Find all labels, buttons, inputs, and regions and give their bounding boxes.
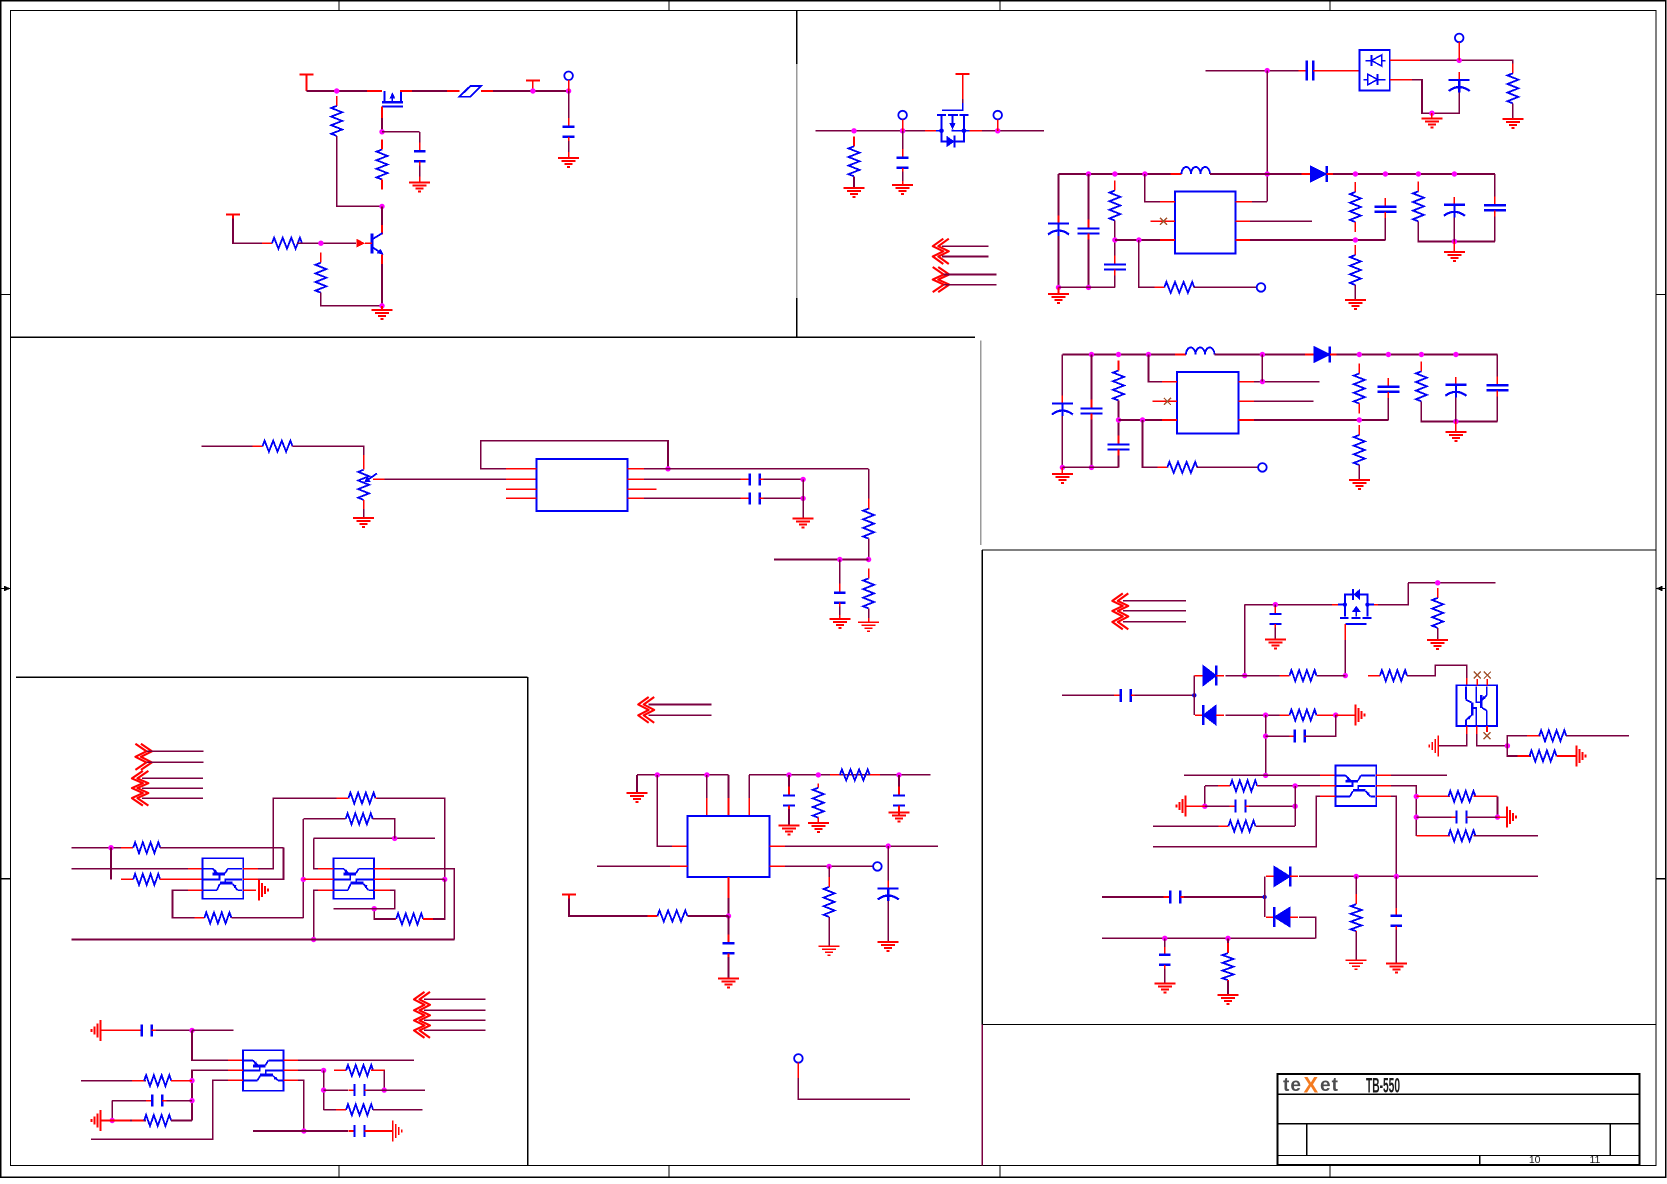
wire C23 to ground <box>1274 628 1276 640</box>
block border: right block top edge <box>982 549 1656 551</box>
wire Q2 emitter down <box>381 255 383 306</box>
wire bottom row right block <box>1102 937 1316 939</box>
resistor R33 <box>336 1104 383 1115</box>
resistor R24 <box>121 842 172 853</box>
pin stub U4 left mid <box>1153 400 1177 402</box>
resistor R10 <box>1109 181 1120 231</box>
wire opto B pin3 route <box>314 890 318 939</box>
ground sideways (opto A) <box>259 880 268 901</box>
capacitor C6 <box>897 149 909 177</box>
wire bus4 right segment <box>749 774 930 776</box>
wire C30 top <box>1164 938 1166 951</box>
op-amp/regulator IC U2 <box>537 459 628 511</box>
junction bus1/R12 <box>1353 171 1358 176</box>
wire R11 to pin P5 <box>1194 286 1257 288</box>
power flag VOUT <box>526 81 540 92</box>
wire opto A top-left pin <box>72 868 203 870</box>
wire opto B top-left pin <box>318 868 334 870</box>
wire bus1 segment B <box>1210 173 1304 175</box>
wire junction to C22 <box>304 1130 348 1132</box>
wire U5 out pin2 <box>770 865 786 867</box>
wire R45 to ground <box>1227 981 1229 995</box>
junction opto B mid-left <box>301 877 306 882</box>
pin stub U3 right mid <box>1235 220 1250 222</box>
wire opto C mid-left pin <box>228 1069 243 1071</box>
resistor R14 <box>1413 181 1424 231</box>
wire row7 left <box>1153 825 1228 827</box>
wire QD bottom pin2 <box>1476 726 1478 734</box>
pin stub QD top c <box>1486 679 1488 685</box>
junction bus1/C10 <box>1383 171 1388 176</box>
wire fb divider down <box>1139 240 1155 287</box>
junction bus3/U5 pin1 rail <box>655 772 660 777</box>
ground (C23) <box>1265 640 1286 649</box>
wire R32 drop <box>383 1070 385 1090</box>
wire C20 to vertical <box>166 1100 192 1102</box>
ground (DA1) <box>1421 113 1442 127</box>
junction DA1 ground node <box>1429 111 1434 116</box>
diode D3 <box>1195 666 1224 686</box>
capacitor C24 <box>1114 689 1138 702</box>
svg-text:et: et <box>1320 1075 1339 1096</box>
sheet centre arrow right <box>1656 586 1666 592</box>
wire R5 to trimmer top <box>293 446 364 462</box>
junction row4 QE <box>1263 773 1268 778</box>
capacitor C16 <box>783 787 795 815</box>
wire output node down to C2 <box>568 91 570 123</box>
junction bus2/C12 <box>1089 352 1094 357</box>
svg-text:11: 11 <box>1589 1154 1600 1166</box>
junction divider node <box>866 557 871 562</box>
no-connect cross X2 <box>1164 398 1171 405</box>
wire C21 stub right <box>384 1089 425 1091</box>
wire QE pin5 route <box>1391 786 1416 836</box>
wire R30 to vertical <box>171 1080 192 1082</box>
svg-text:X: X <box>1304 1073 1319 1098</box>
wire U4 right mid stub <box>1254 400 1314 402</box>
wire left rail1 bottom <box>1058 236 1060 287</box>
title block column divider b <box>1609 1124 1611 1156</box>
wire R37 long right <box>1566 735 1629 737</box>
wire opto A mid-right pin <box>243 878 258 880</box>
ground (R8) <box>844 188 865 197</box>
ground (C18) <box>718 979 739 988</box>
dual transistor QE <box>1336 766 1377 807</box>
junction R32 left <box>321 1068 326 1073</box>
resistor R43 <box>1438 830 1485 841</box>
wire left rail2 top <box>1061 355 1063 400</box>
pin stub QD bottom c <box>1486 726 1488 732</box>
wire vertical R40 node <box>1294 786 1296 826</box>
border zone ticks top <box>339 1 1330 11</box>
title block row divider 3 <box>1278 1155 1640 1157</box>
power flag (U5 bypass) <box>562 894 576 898</box>
wire C4 to junction <box>763 497 803 499</box>
polarized capacitor PC2 <box>1048 216 1069 245</box>
resistor R26 <box>194 912 241 923</box>
wire C29 to ground <box>1395 930 1397 964</box>
junction C3 right <box>800 477 805 482</box>
junction C21 right <box>382 1087 387 1092</box>
offpage connector group D <box>135 744 152 770</box>
wire opto C pin4 long stub <box>298 1059 414 1061</box>
wire R14 to out bottom rail <box>1418 221 1495 241</box>
junction R35/R36 node <box>1343 673 1348 678</box>
junction gate node <box>379 129 384 134</box>
wire C21 row left <box>324 1089 349 1091</box>
wire U4 sw stub <box>1254 381 1320 383</box>
junction main rail / R1 <box>334 88 339 93</box>
wire QD bottom pin1 <box>1466 726 1468 734</box>
wire U3 vin pin <box>1145 174 1175 202</box>
capacitor C28 <box>1163 891 1187 904</box>
junction C26 right <box>1292 804 1297 809</box>
wire R28 right drop <box>373 819 395 839</box>
wire C11 bottom <box>1494 216 1496 241</box>
wire right chain down <box>868 469 870 510</box>
junction R8 top <box>851 128 856 133</box>
wire C1 stem <box>419 132 421 147</box>
junction U5 out1/PC6 <box>886 843 891 848</box>
wire rowA to R42 <box>1416 795 1450 797</box>
resistor R19 <box>1416 361 1427 411</box>
junction C21 left <box>321 1087 326 1092</box>
wire R10 to C9 <box>1114 221 1116 259</box>
pin stub U4 right mid <box>1238 400 1254 402</box>
ground (R7) <box>858 618 879 631</box>
wire C6 stem <box>902 131 904 154</box>
resistor R17 <box>1354 364 1365 414</box>
resistor R18 <box>1354 425 1365 475</box>
wire Q1 gate drop <box>381 106 383 131</box>
junction U3 gnd / fb divider <box>1136 237 1141 242</box>
pin stub U3 left mid <box>1151 220 1175 222</box>
dual transistor opto QC <box>243 1050 284 1091</box>
no-connect cross X4 <box>1484 672 1491 679</box>
ground (R45) <box>1218 995 1239 1004</box>
capacitor C14 <box>1377 378 1399 401</box>
junction R30 node <box>189 1078 194 1083</box>
polarized capacitor PC4 <box>1052 396 1073 425</box>
capacitor C10 <box>1374 198 1396 221</box>
wire C17 stem <box>898 775 900 792</box>
sheet centre arrow left <box>1 586 11 592</box>
title block row divider 1 <box>1278 1093 1640 1095</box>
wire opto A top-right pin <box>243 868 258 870</box>
junction fb2/output divider <box>1357 417 1362 422</box>
border zone ticks right edge <box>1656 295 1666 879</box>
ground (C17) <box>889 809 910 821</box>
wire QE pin3 route <box>1153 796 1320 846</box>
junction diode pair D3/D4 <box>1192 693 1196 697</box>
junction out bottom rail2 <box>1453 419 1458 424</box>
wire R1 bottom to base rail <box>337 136 382 207</box>
offpage line G1 <box>1123 600 1186 602</box>
wire C5 to ground <box>839 606 841 619</box>
wire U5 out1 right <box>785 845 938 847</box>
wire Q4 source to rail <box>1378 583 1408 605</box>
junction row6 left <box>1202 804 1207 809</box>
wire R9 to ground <box>1512 103 1514 119</box>
wire sw node to bus2 <box>1261 355 1263 382</box>
wire trimmer wiper to IC1 <box>373 478 385 480</box>
offpage connector group F <box>414 992 430 1038</box>
wire U3 sw to VIN rail <box>1252 201 1267 203</box>
wire R39 to ground <box>1317 714 1336 716</box>
wire C28 row left <box>1102 896 1167 898</box>
wire R6 to divider node <box>868 539 870 560</box>
wire C18 to ground <box>728 957 730 979</box>
ground (R13) <box>1345 300 1366 309</box>
wire long vertical x=303 <box>302 819 304 918</box>
junction bus2/PC5 <box>1453 352 1458 357</box>
ground (out rail1) <box>1444 242 1465 262</box>
junction pin6 route <box>372 906 377 911</box>
wire QD pin1 to ground <box>1438 734 1467 746</box>
junction fb/output divider <box>1353 237 1358 242</box>
junction C4 right <box>800 496 805 501</box>
wire R28 left corner <box>303 818 345 820</box>
junction emitter/ground <box>379 303 384 308</box>
ground (R20) <box>808 822 829 833</box>
wire rail C12 bottom <box>1091 420 1093 468</box>
no-connect cross X5 <box>1484 732 1491 739</box>
wire U3 sw pin to bus1 <box>1235 201 1252 203</box>
capacitor C15 <box>1486 376 1508 399</box>
wire PC1 to gnd rail <box>1432 93 1459 114</box>
ground (R9) <box>1502 119 1523 128</box>
capacitor C27 <box>1452 811 1472 824</box>
junction VOUT flag <box>530 88 535 93</box>
ground (R18) <box>1349 480 1370 489</box>
resistor R27 <box>337 793 388 804</box>
wire fuse to output pin <box>481 90 569 92</box>
wire node to Q2 collector <box>381 206 383 234</box>
junction bus2/R19 <box>1419 352 1424 357</box>
wire left rail2 bottom <box>1061 416 1063 467</box>
junction R34 top <box>1435 580 1440 585</box>
wire charger input <box>1206 70 1302 72</box>
connector pin P1 <box>564 72 573 81</box>
wire R26 to vertical <box>232 917 303 919</box>
wire diode pair 2 vertical <box>1264 876 1266 917</box>
capacitor C5 <box>834 584 846 612</box>
ground (Q2 emitter) <box>372 306 393 319</box>
npn transistor Q2 <box>372 233 384 255</box>
wire trimmer bottom to ground <box>363 500 365 518</box>
wire battery rail right <box>970 130 1044 132</box>
wire U3 right mid stub <box>1250 220 1312 222</box>
wire main rail left segment <box>307 90 375 92</box>
junction C20 node <box>189 1098 194 1103</box>
wire U5 bottom pin to node <box>728 898 730 916</box>
junction R40/vertical <box>1292 783 1297 788</box>
wire D6 route down <box>1299 917 1316 938</box>
polarized capacitor PC3 <box>1444 197 1465 226</box>
dual transistor opto QB <box>334 858 375 899</box>
resistor R25 <box>121 874 172 885</box>
wire bottom row left stub <box>253 1130 304 1132</box>
wire bottom bus2 <box>1062 466 1118 468</box>
wire C13 to bottom bus2 <box>1118 456 1120 468</box>
connector pin P3 <box>993 111 1002 120</box>
resistor R8 <box>849 136 860 186</box>
wire C18 stem <box>728 916 730 940</box>
wire U4 fb to output divider <box>1254 419 1388 421</box>
wire C9 to bottom bus1 <box>1114 276 1116 288</box>
wire row A left <box>72 847 132 849</box>
junction bus2/R15 <box>1116 352 1121 357</box>
wire Q3 gate to flag <box>962 84 964 103</box>
wire C22 to ground <box>366 1130 392 1132</box>
wire DA1 pin2 down <box>1390 79 1412 81</box>
ground (C5) <box>829 615 850 628</box>
wire gate row corner down <box>1244 605 1246 676</box>
ground sideways (C19) <box>91 1020 100 1041</box>
wire U5 top pin a drop <box>706 775 708 816</box>
wire R18 to ground <box>1358 465 1360 480</box>
resistor R20 <box>813 784 824 822</box>
junction bottom row C22 <box>301 1128 306 1133</box>
wire R41 to corner <box>1255 825 1295 827</box>
offpage line F3 <box>424 1019 486 1021</box>
wire battery rail left <box>815 130 936 132</box>
junction R15/C13 <box>1116 417 1121 422</box>
power flag (Q3 gate) <box>956 74 970 85</box>
wire vbat rail top <box>1408 582 1495 584</box>
wire U5 pin1 rail drop <box>657 775 687 846</box>
block border: top-left block right edge <box>796 11 798 338</box>
junction out bottom rail <box>1452 239 1457 244</box>
wire cap junctions to ground <box>802 479 804 518</box>
resistor R40 <box>1218 780 1269 791</box>
wire R32 right corner <box>371 1069 384 1071</box>
wire U5 out2 right <box>785 865 873 867</box>
wire C21 to junction <box>366 1089 384 1091</box>
wire bus3 left segment <box>637 774 729 776</box>
ground sideways (QD) <box>1429 735 1438 756</box>
wire QE top-right pin <box>1376 774 1391 776</box>
resistor R1 <box>331 96 342 146</box>
junction C5 top <box>837 557 842 562</box>
offpage line D1 <box>146 750 203 752</box>
wire C6 to ground <box>902 172 904 185</box>
junction diode pair D5/D6 <box>1262 895 1266 899</box>
wire C16 stem <box>788 775 790 792</box>
wire PC3 bottom <box>1453 217 1455 241</box>
p-mosfet Q1 <box>382 91 403 106</box>
junction C23 top <box>1273 602 1278 607</box>
resistor R34 <box>1432 588 1443 638</box>
ground (R22) <box>819 946 840 955</box>
junction C25 left <box>1263 733 1268 738</box>
wire node up to R37 <box>1507 736 1540 746</box>
wire R29 left route <box>374 909 395 919</box>
offpage line G3 <box>1123 621 1186 623</box>
ground (C29) <box>1386 964 1407 973</box>
offpage connector group G <box>1112 593 1128 629</box>
capacitor C21 <box>349 1084 371 1096</box>
wire bottom rail <box>72 939 455 941</box>
polarized capacitor PC5 <box>1445 377 1466 406</box>
resistor R38 <box>1518 751 1569 762</box>
wire QE pin6 route <box>1391 796 1396 876</box>
capacitor C13 <box>1108 436 1130 459</box>
junction QD pin2 node <box>1505 743 1510 748</box>
wire U4 fb pin right <box>1238 419 1254 421</box>
wire R44 to ground <box>1355 932 1357 960</box>
wire D5 row right <box>1299 875 1538 877</box>
diode D2 <box>1305 347 1339 363</box>
ground sideways (R39) <box>1355 705 1364 726</box>
wire U5 bottom pin <box>728 877 730 898</box>
wire C23 stem <box>1274 605 1276 611</box>
wire U2 pin2 to C3 <box>628 478 746 480</box>
wire U5 left pin2 <box>597 865 688 867</box>
ground sideways (C26) <box>1177 796 1186 817</box>
resistor R2 <box>377 140 388 190</box>
junction D5 row/C29 <box>1394 874 1399 879</box>
resistor R3 <box>262 238 312 249</box>
resistor R9 <box>1507 63 1518 113</box>
wire R44 top <box>1355 876 1357 903</box>
offpage connector group E <box>132 771 149 806</box>
ground (block2) <box>1052 467 1073 483</box>
audio amplifier IC U5 <box>688 816 770 877</box>
junction gnd row2 <box>110 1118 115 1123</box>
wire C30 to ground <box>1164 969 1166 984</box>
junction bus2/U4-in <box>1146 352 1151 357</box>
wire bus2 segment A <box>1062 354 1185 356</box>
wire R16 to pin P6 <box>1197 466 1259 468</box>
offpage line F1 <box>424 998 486 1000</box>
dual mosfet Q3 (battery switch) <box>936 103 970 147</box>
block border: middle column divider (gray segment) <box>980 341 982 545</box>
junction U2 out / feedback <box>665 466 670 471</box>
capacitor C26 <box>1230 800 1252 813</box>
junction bus2/R17 <box>1357 352 1362 357</box>
wire bus1 segment A <box>1059 173 1182 175</box>
resistor R11 <box>1154 282 1204 293</box>
wire C15 top <box>1496 355 1498 380</box>
resistor R21 <box>830 769 880 780</box>
wire QE bottom-right pin <box>1376 795 1391 797</box>
pin stub U2 left pin4 <box>506 497 537 499</box>
svg-text:te: te <box>1283 1075 1302 1096</box>
wire row5-row6 drop <box>1204 786 1206 806</box>
wire bus2 segment C <box>1336 354 1497 356</box>
resistor R35 <box>1280 670 1327 681</box>
capacitor C20 <box>146 1095 168 1107</box>
capacitor C1 <box>414 142 426 170</box>
junction rowB <box>1414 814 1419 819</box>
wire C19 node stub <box>192 1029 233 1031</box>
junction VIN at bus1 <box>1265 171 1270 176</box>
junction R2/collector node <box>379 204 384 209</box>
wire U2 out to right chain <box>628 468 869 470</box>
wire bus3 corner to top pin b <box>728 775 730 816</box>
capacitor C22 <box>349 1125 371 1137</box>
pin stub U2 right pin3 <box>628 488 657 490</box>
capacitor C4 <box>741 493 769 505</box>
junction R10/C9 <box>1112 237 1117 242</box>
wire C19 to junction <box>156 1029 192 1031</box>
offpage line F4 <box>424 1029 486 1031</box>
wire opto C pin6 route <box>298 1080 304 1131</box>
wire R33 stub right <box>373 1109 422 1111</box>
dual diode opto DA1 <box>1359 50 1389 91</box>
wire C25 left drop <box>1265 715 1267 775</box>
